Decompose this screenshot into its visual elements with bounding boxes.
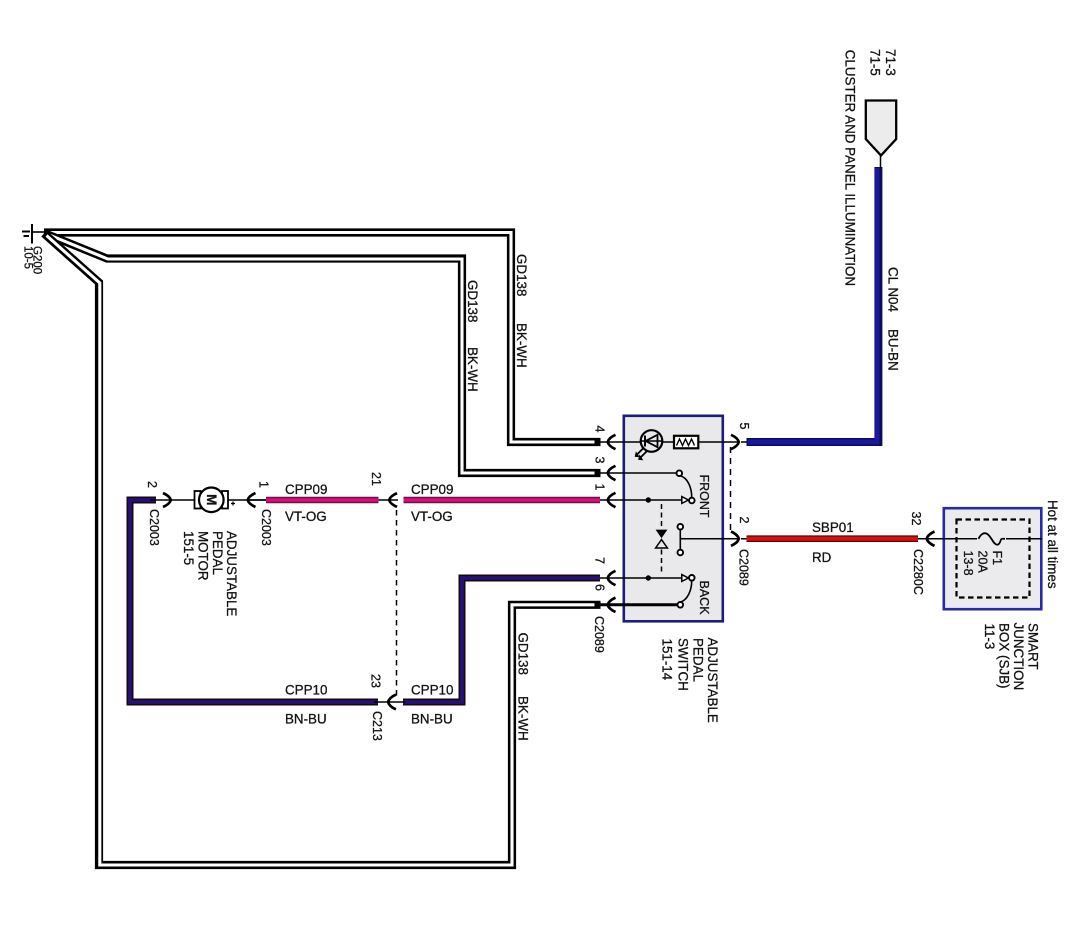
connector C213 dashed line — [396, 510, 398, 696]
wire pin 7 row (BACK arm) — [600, 577, 683, 579]
junction dot pin 1 row — [646, 497, 651, 502]
mechanical linkage dashed — [661, 504, 663, 528]
SJB dashed inner box — [957, 520, 1030, 598]
svg-text:GD138: GD138 — [516, 633, 531, 675]
common contact (upper) — [678, 524, 684, 530]
svg-text:71-3: 71-3 — [883, 49, 898, 76]
svg-text:SWITCH: SWITCH — [676, 638, 691, 691]
connector C2089 pin 2 arrow — [731, 532, 739, 546]
svg-text:CPP10: CPP10 — [285, 683, 327, 698]
wire GD138 BK-WH (pin4 to ground, top run) — [44, 233, 601, 443]
lamp emission arrows — [637, 448, 648, 458]
svg-text:BN-BU: BN-BU — [285, 712, 327, 727]
svg-text:CPP09: CPP09 — [285, 482, 327, 497]
wire GD138 BK-WH (pin3 to ground, second run) — [44, 233, 601, 473]
svg-text:GD138: GD138 — [465, 280, 480, 322]
adjustable pedal switch box — [624, 416, 723, 622]
svg-text:2: 2 — [145, 481, 159, 488]
svg-text:M: M — [204, 494, 219, 505]
svg-text:21: 21 — [369, 472, 383, 486]
ground G200 — [22, 224, 45, 244]
wire GD138 BK-WH (pin6 to ground, left/bottom run) — [44, 234, 601, 866]
svg-text:151-5: 151-5 — [181, 531, 196, 565]
svg-text:BU-BN: BU-BN — [886, 329, 901, 371]
svg-text:20A: 20A — [976, 551, 990, 574]
svg-text:BK-WH: BK-WH — [514, 323, 529, 368]
wire pin 6 row — [600, 603, 678, 606]
svg-text:C2003: C2003 — [147, 509, 161, 546]
connector C2089 pin 1 arrow — [608, 493, 616, 507]
svg-text:F1: F1 — [990, 551, 1004, 566]
svg-text:ADJUSTABLE: ADJUSTABLE — [705, 638, 720, 723]
svg-text:10-5: 10-5 — [22, 246, 34, 269]
wire CL N04 BU-BN (blue) — [741, 441, 750, 443]
svg-text:CLUSTER AND PANEL ILLUMINATION: CLUSTER AND PANEL ILLUMINATION — [843, 50, 858, 286]
svg-text:Hot at all times: Hot at all times — [1045, 500, 1060, 589]
linkage triangle (filled) — [656, 530, 668, 539]
svg-text:7: 7 — [593, 557, 607, 564]
svg-text:CPP10: CPP10 — [411, 683, 453, 698]
wire CPP09 VT-OG (C213 pin21 to switch pin1) — [404, 497, 601, 504]
svg-text:C2280C: C2280C — [911, 549, 925, 595]
connector C2280C pin 32 arrow — [927, 532, 935, 546]
svg-text:BK-WH: BK-WH — [465, 347, 480, 392]
connector C213 pin 23 arrow + line — [374, 701, 405, 703]
BACK switch pole contact — [689, 575, 695, 581]
svg-text:SBP01: SBP01 — [812, 520, 854, 535]
FRONT switch pole contact — [689, 498, 695, 504]
svg-text:BN-BU: BN-BU — [411, 712, 453, 727]
svg-text:MOTOR: MOTOR — [196, 531, 211, 581]
BACK switch contact (pin 6) — [678, 602, 684, 608]
svg-text:VT-OG: VT-OG — [411, 509, 453, 524]
svg-text:PEDAL: PEDAL — [691, 638, 706, 682]
wire pin 2 row — [680, 538, 738, 540]
off-page connector (cluster illumination) — [880, 152, 882, 168]
svg-text:151-14: 151-14 — [660, 639, 675, 681]
svg-text:CPP09: CPP09 — [411, 482, 453, 497]
svg-text:PEDAL: PEDAL — [210, 531, 225, 575]
resistor — [674, 436, 698, 449]
svg-text:GD138: GD138 — [514, 254, 529, 296]
svg-text:1: 1 — [257, 481, 271, 488]
svg-text:VT-OG: VT-OG — [285, 509, 327, 524]
svg-text:ADJUSTABLE: ADJUSTABLE — [224, 531, 239, 616]
connector C2003 pin 1 arrow — [248, 493, 256, 507]
svg-text:C2003: C2003 — [259, 509, 273, 546]
connector C2089 pin 7 arrow — [608, 571, 616, 585]
svg-text:C2089: C2089 — [592, 616, 606, 653]
wire CPP10 BN-BU (motor pin2 to C213 pin23) — [130, 500, 378, 702]
fuse F1 — [977, 527, 1006, 548]
wire CPP10 BN-BU (C213 pin23 to switch pin7) — [403, 578, 600, 702]
motor polarity mark — [231, 502, 235, 506]
junction dot pin 7 row — [646, 575, 651, 580]
svg-text:JUNCTION: JUNCTION — [1011, 623, 1026, 691]
connector C2089 pin 6 arrow — [608, 598, 616, 612]
connector C2089 pin 3 arrow — [608, 466, 616, 480]
wire motor pin 2 lead — [150, 499, 196, 501]
svg-text:6: 6 — [593, 584, 607, 591]
svg-text:C2089: C2089 — [737, 549, 751, 586]
common contact (lower) — [678, 550, 684, 556]
wire motor pin 1 lead — [227, 499, 266, 501]
svg-text:CL N04: CL N04 — [886, 267, 901, 312]
svg-text:1: 1 — [593, 484, 607, 491]
BACK switch throw arc — [681, 581, 692, 602]
svg-text:BACK: BACK — [697, 581, 711, 616]
FRONT arm arrowhead — [682, 497, 689, 504]
FRONT switch contact (pin 3) — [677, 470, 683, 476]
connector C2089 pin 4 arrow — [608, 435, 616, 449]
svg-text:71-5: 71-5 — [868, 49, 883, 76]
svg-text:11-3: 11-3 — [982, 624, 997, 650]
svg-text:C213: C213 — [370, 711, 384, 741]
motor brush (left) — [195, 491, 201, 509]
svg-text:13-8: 13-8 — [961, 551, 975, 576]
svg-text:32: 32 — [909, 512, 923, 526]
svg-text:2: 2 — [737, 517, 751, 524]
wire pin 1 row (FRONT arm) — [600, 499, 683, 501]
svg-text:3: 3 — [593, 457, 607, 464]
svg-text:BK-WH: BK-WH — [516, 696, 531, 741]
FRONT switch throw arc — [681, 476, 692, 498]
svg-text:RD: RD — [812, 550, 832, 565]
svg-text:BOX (SJB): BOX (SJB) — [997, 623, 1012, 688]
wire SBP01 RD (red) — [741, 538, 930, 540]
linkage triangle (open) — [656, 540, 668, 548]
motor brush (right) — [222, 491, 228, 509]
common contact bar — [679, 530, 681, 550]
BACK arm arrowhead — [682, 575, 689, 582]
connector C2003 pin 2 arrow — [163, 493, 171, 507]
svg-text:4: 4 — [593, 426, 607, 433]
svg-text:23: 23 — [369, 674, 383, 688]
svg-text:FRONT: FRONT — [697, 475, 711, 518]
svg-text:SMART: SMART — [1026, 623, 1041, 670]
connector C213 pin 21 arrow — [389, 493, 397, 507]
svg-text:5: 5 — [737, 423, 751, 430]
smart junction box — [944, 508, 1042, 609]
wire CPP09 VT-OG (motor pin1 to C213 pin21) — [247, 499, 398, 501]
connector C2089 dashed line — [730, 447, 732, 533]
lamp (illumination) symbol — [641, 430, 663, 452]
wire pin 4 row (lamp feed) — [600, 441, 738, 443]
SJB internal wire — [930, 538, 1042, 540]
connector C2089 pin 5 arrow — [731, 435, 739, 449]
wire pin 3 row — [600, 472, 679, 474]
motor M1 body — [199, 488, 224, 513]
